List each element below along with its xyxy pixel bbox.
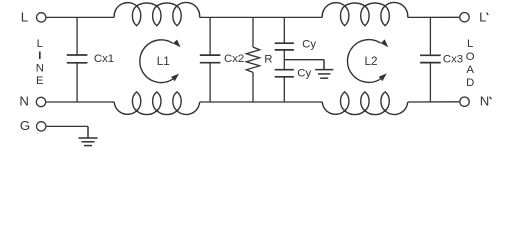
L1 flux arrow (circular double-headed arrow) [140,40,181,83]
svg-text:R: R [264,54,272,66]
terminal L` (load output) [460,13,469,22]
label LOAD (vertical) [466,38,475,89]
svg-text:L: L [479,9,486,24]
capacitor Cx2 [200,17,221,102]
terminal N` (load output) [460,97,469,106]
svg-text:L: L [467,38,473,50]
L2 flux arrow (circular double-headed arrow) [347,39,388,82]
wire bottom: L2 coil to N` terminal [408,101,460,103]
wire top: L terminal to L1 coil [47,16,115,18]
svg-text:L1: L1 [157,55,170,68]
wire top: L2 coil to L` terminal [408,16,460,18]
svg-text:N: N [19,94,29,109]
terminal L (line input) [37,13,46,22]
svg-text:Cx2: Cx2 [224,53,244,65]
inductor L1 bottom winding [114,92,199,115]
svg-text:E: E [36,75,44,87]
terminal N (line input) [36,97,45,106]
wire: Cy midpoint to middle ground [284,59,324,61]
resistor R [246,17,259,102]
label LINE (vertical) [36,38,44,87]
wire: G terminal to chassis ground [47,125,89,127]
ground (middle, Cy) [315,60,333,78]
svg-text:A: A [466,64,474,76]
svg-text:D: D [466,77,474,89]
svg-text:O: O [466,51,475,63]
svg-text:Cy: Cy [302,39,316,51]
inductor L1 top winding [114,2,200,25]
svg-text:I: I [38,50,41,62]
wire bottom: L1 coil to L2 coil [200,101,323,103]
svg-text:Cy: Cy [297,67,311,79]
svg-text:Cx3: Cx3 [443,54,463,66]
ground (chassis, left) [78,126,97,145]
wire bottom: N terminal to L1 coil [46,101,114,103]
svg-text:G: G [20,118,30,133]
capacitor Cy (top) [275,17,294,69]
svg-text:L2: L2 [365,55,378,68]
svg-text:Cx1: Cx1 [94,53,114,65]
terminal G (ground input) [37,122,46,131]
inductor L2 bottom winding [322,92,407,115]
capacitor Cx3 [420,17,441,102]
inductor L2 top winding [322,2,408,25]
svg-text:L: L [37,38,43,50]
capacitor Cy (bottom) [275,70,294,102]
svg-text:N: N [36,63,44,75]
wire top: L1 coil to L2 coil [200,16,323,18]
svg-text:L: L [21,9,28,24]
capacitor Cx1 [67,17,88,102]
svg-text:N: N [480,93,490,108]
